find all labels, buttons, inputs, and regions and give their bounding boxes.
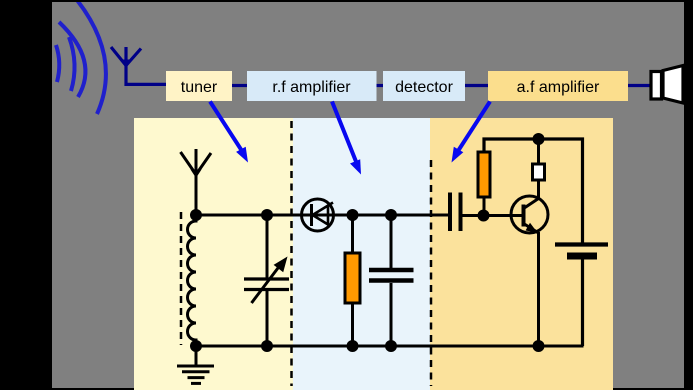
block: tuner [166, 71, 232, 101]
top supply wire [484, 139, 583, 245]
diode D1 triangle [313, 203, 334, 225]
capacitor C1 plates [369, 270, 414, 281]
node capacitor C1 top [385, 209, 397, 221]
wire a.f amplifier to loudspeaker [628, 84, 651, 87]
wire detector to a.f amplifier [465, 84, 488, 87]
node transistor base / R2 [478, 210, 490, 222]
arrow tuner to circuit [210, 102, 248, 163]
battery B1 bottom wire [581, 260, 584, 347]
svg-text:r.f amplifier: r.f amplifier [272, 79, 351, 96]
node antenna / coil top [190, 209, 202, 221]
transistor Q1 collector [524, 199, 539, 209]
diode D1 cathode bar [310, 204, 313, 226]
capacitor C1 wires [390, 215, 393, 346]
battery B1 short plate [567, 253, 597, 260]
arrow a.f amplifier to circuit [452, 102, 491, 163]
wire tuner to r.f amplifier [232, 84, 247, 87]
transistor Q1 base bar [522, 205, 526, 227]
radio wave arc 1 (largest) [77, 0, 106, 114]
resistor R1 (r.f load) [345, 253, 360, 303]
resistor R1 wires [351, 215, 354, 346]
node resistor R1 bottom [347, 340, 359, 352]
arrow r.f amplifier to circuit [332, 102, 361, 175]
block: detector [383, 71, 465, 101]
node diode output [347, 209, 359, 221]
node variable capacitor bottom [261, 340, 273, 352]
a.f amplifier panel (orange-yellow) [430, 118, 613, 390]
transistor Q1 circle [511, 196, 548, 233]
ground [177, 346, 214, 383]
node variable capacitor top [261, 209, 273, 221]
radio wave arc 4 (smallest) [56, 45, 59, 82]
transistor Q1 emitter arrowhead [526, 223, 538, 233]
transistor Q1 emitter [524, 224, 539, 347]
block: a.f amplifier [488, 71, 628, 101]
battery B1 long plate [555, 242, 608, 246]
dashed boundary r.f / a.f [430, 160, 433, 386]
node emitter bottom [533, 340, 545, 352]
diode D1 circle [302, 199, 334, 231]
inductor core dashed line [180, 212, 183, 345]
bottom wire [196, 345, 584, 348]
svg-text:detector: detector [395, 79, 453, 96]
receiving antenna (navy) [111, 47, 166, 84]
variable capacitor VC1 plates [244, 279, 289, 290]
wire coupling capacitor to transistor base [463, 214, 524, 217]
bottom black border line [0, 388, 693, 390]
inductor L1 coil [188, 215, 196, 346]
variable capacitor arrow [252, 264, 282, 303]
loudspeaker [651, 66, 683, 104]
radio wave arc 3 [69, 37, 75, 91]
r.f amplifier panel (light blue) [293, 118, 430, 390]
top black border line [0, 0, 693, 2]
variable capacitor arrowhead [274, 257, 288, 273]
svg-text:tuner: tuner [181, 79, 218, 96]
resistor R2 (base bias) [478, 152, 490, 197]
wire r.f amplifier to detector [377, 84, 384, 87]
circuit antenna arrowhead [191, 170, 202, 179]
coupling capacitor C2 plates [450, 193, 461, 232]
node earpiece top [533, 133, 545, 145]
left black border [0, 0, 52, 390]
resistor R2 bottom wire [483, 197, 486, 216]
earpiece / transducer [533, 164, 545, 180]
svg-text:a.f amplifier: a.f amplifier [517, 79, 600, 96]
earpiece wire bottom [537, 180, 540, 199]
radio wave arc 2 [59, 22, 85, 97]
dashed boundary tuner / r.f [290, 121, 293, 386]
tuner panel (yellow) [134, 118, 293, 390]
node capacitor C1 bottom [385, 340, 397, 352]
earpiece wire top [537, 139, 540, 164]
variable capacitor wires [266, 215, 269, 346]
receiving antenna arrowhead [121, 60, 131, 69]
node coil bottom / ground [190, 340, 202, 352]
block: r.f amplifier [247, 71, 377, 101]
circuit antenna [181, 149, 212, 215]
right black border [684, 0, 693, 390]
top wire antenna to coupling capacitor [196, 214, 448, 217]
